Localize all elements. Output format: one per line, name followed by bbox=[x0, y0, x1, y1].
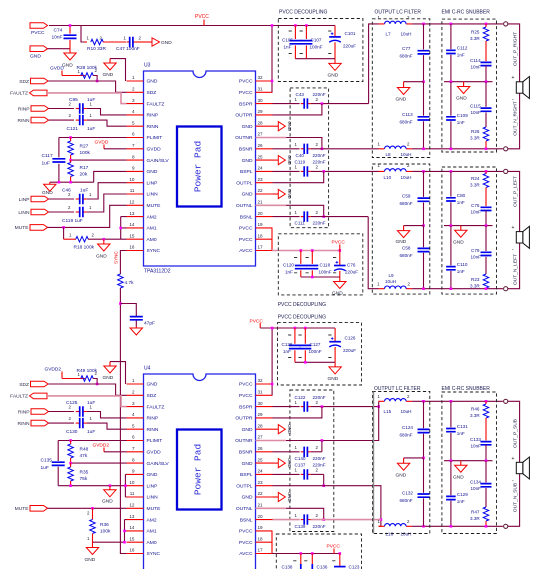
port MUTE bbox=[30, 225, 48, 231]
C101 plates bbox=[329, 36, 341, 38]
svg-text:GND: GND bbox=[242, 495, 253, 501]
terminal OUT_N_RIGHT bbox=[504, 147, 508, 151]
svg-text:6: 6 bbox=[132, 435, 135, 440]
svg-text:47pF: 47pF bbox=[144, 321, 155, 327]
svg-text:Power Pad: Power Pad bbox=[193, 141, 204, 192]
junction OUTNR/C140 bbox=[321, 439, 324, 442]
junction C110 bottom bbox=[450, 287, 453, 290]
svg-text:OUT_N_LEFT: OUT_N_LEFT bbox=[513, 254, 519, 285]
svg-text:C140: C140 bbox=[295, 456, 306, 461]
U3 pin 18 PVCC bbox=[256, 238, 273, 240]
svg-text:OUTNR: OUTNR bbox=[235, 135, 253, 141]
svg-text:RINP: RINP bbox=[147, 416, 159, 422]
capacitor C112 1nF bbox=[450, 24, 452, 82]
junction R35 bottom bbox=[69, 484, 72, 487]
junction MUTE/R18 bbox=[62, 226, 65, 229]
svg-text:10nF: 10nF bbox=[471, 210, 482, 215]
capacitor C79 10nF bbox=[485, 226, 487, 274]
wire PVCC to U4 pins 32/31 bbox=[271, 328, 273, 395]
svg-text:GND: GND bbox=[453, 240, 464, 246]
svg-text:BSNL: BSNL bbox=[240, 214, 253, 220]
svg-text:1uF: 1uF bbox=[87, 429, 95, 435]
junction U4 pin 32 bbox=[271, 383, 274, 386]
capacitor C120 1nF bbox=[300, 251, 302, 278]
junction MUTE/R36 bbox=[91, 507, 94, 510]
svg-text:C109: C109 bbox=[457, 113, 468, 118]
U4 pin 2 SDZ bbox=[127, 394, 144, 396]
svg-text:R47: R47 bbox=[471, 510, 480, 515]
svg-text:BSNR: BSNR bbox=[239, 147, 253, 153]
wire FAULTZ to pin 3 bbox=[47, 93, 127, 104]
svg-text:GVDD2: GVDD2 bbox=[93, 443, 110, 449]
box bootstrap caps U3 bbox=[290, 88, 329, 228]
cap pin ticks box3 bbox=[288, 335, 331, 358]
wire R25 to C114 bbox=[485, 41, 487, 61]
U3 pin 26 BSNR bbox=[256, 148, 273, 150]
svg-text:1uF: 1uF bbox=[87, 400, 95, 406]
svg-text:OUTNR: OUTNR bbox=[235, 438, 253, 444]
U4 pin 1 GND bbox=[127, 383, 144, 385]
junction C80/C110 bbox=[450, 224, 453, 227]
capacitor C140 220nF bbox=[301, 451, 305, 453]
wire OUTNL to C139 row bbox=[286, 508, 324, 519]
svg-text:2: 2 bbox=[132, 390, 135, 395]
svg-text:C135: C135 bbox=[41, 458, 53, 464]
svg-text:RINN: RINN bbox=[147, 427, 159, 433]
wire C121 to pin 5 bbox=[87, 120, 127, 126]
svg-text:GND: GND bbox=[103, 375, 114, 381]
junction C127 bbox=[304, 327, 307, 330]
wire U4 pins 19-17 tie bbox=[271, 531, 273, 554]
svg-text:18: 18 bbox=[258, 233, 264, 238]
port MUTE (U4) bbox=[30, 506, 48, 512]
svg-text:C121: C121 bbox=[67, 126, 79, 132]
svg-text:1: 1 bbox=[132, 75, 135, 80]
junction C112/C109 bbox=[450, 80, 453, 83]
port RINP bbox=[31, 106, 49, 112]
U3 pin 8 GAIN/SLV bbox=[127, 159, 144, 161]
port RINN bbox=[31, 117, 49, 123]
svg-text:28: 28 bbox=[258, 423, 264, 428]
svg-text:C138: C138 bbox=[282, 565, 293, 569]
svg-text:L9: L9 bbox=[389, 273, 395, 278]
U4 pin 31 PVCC bbox=[256, 394, 273, 396]
svg-text:C133: C133 bbox=[470, 437, 481, 442]
junction C107 bbox=[305, 24, 308, 27]
U3 pin 2 SDZ bbox=[127, 91, 144, 93]
svg-text:C95: C95 bbox=[69, 97, 78, 103]
svg-text:GND: GND bbox=[242, 427, 253, 433]
wire RINN to C130 bbox=[49, 422, 75, 424]
wire pin GND stub bbox=[273, 462, 279, 464]
capacitor C76 220uF bbox=[339, 251, 341, 278]
port RINP (U4) bbox=[31, 409, 49, 415]
junction C80 top bbox=[450, 170, 453, 173]
U4 pin 6 PLIMIT bbox=[127, 440, 144, 442]
svg-text:LINP: LINP bbox=[19, 197, 30, 203]
U4 pin 4 RINP bbox=[127, 417, 144, 419]
junction C75/C79 bbox=[485, 224, 488, 227]
capacitor C125 1uF bbox=[76, 411, 80, 413]
svg-text:BSNL: BSNL bbox=[240, 517, 253, 523]
junction C118 bottom bbox=[311, 276, 314, 279]
svg-text:23: 23 bbox=[258, 480, 264, 485]
power label PVCC bbox=[203, 20, 205, 26]
inductor L10 10uH bbox=[379, 170, 413, 172]
svg-text:C76: C76 bbox=[347, 263, 356, 268]
svg-text:GND: GND bbox=[242, 461, 253, 467]
inductor L16 10uH bbox=[379, 525, 413, 527]
port RINN (U4) bbox=[31, 420, 49, 426]
wire to LC gnd 2 bbox=[404, 225, 424, 227]
U3 pin 3 FAULTZ bbox=[127, 103, 144, 105]
junction R24 top bbox=[485, 170, 488, 173]
svg-text:27: 27 bbox=[258, 435, 264, 440]
wire PVCC rail (U4) bbox=[260, 327, 335, 329]
svg-text:680nF: 680nF bbox=[400, 498, 413, 503]
svg-text:PVCC: PVCC bbox=[239, 382, 253, 388]
U3 pin 28 GND bbox=[256, 125, 273, 127]
svg-text:GND: GND bbox=[453, 475, 464, 481]
svg-text:PVCC: PVCC bbox=[239, 237, 253, 243]
wire RINP to C125 bbox=[49, 411, 75, 413]
svg-text:LINN: LINN bbox=[147, 495, 159, 501]
U3 pin 1 GND bbox=[127, 80, 144, 82]
junction R46 top bbox=[485, 400, 488, 403]
svg-text:680nF: 680nF bbox=[400, 253, 413, 258]
wire C95 to pin 4 bbox=[87, 109, 127, 115]
wire C139 row to L16 feed (pink) bbox=[311, 519, 381, 521]
svg-text:AM0: AM0 bbox=[147, 237, 157, 243]
svg-text:GVDD: GVDD bbox=[147, 450, 162, 456]
svg-text:PVCC DECOUPLING: PVCC DECOUPLING bbox=[279, 10, 327, 16]
svg-text:30: 30 bbox=[258, 401, 264, 406]
junction pins tie bbox=[124, 484, 127, 487]
resistor R36 100k bbox=[90, 520, 96, 534]
svg-text:GVDD2: GVDD2 bbox=[45, 367, 62, 373]
svg-text:PLIMIT: PLIMIT bbox=[147, 438, 163, 444]
wire divider bottom rail bbox=[50, 181, 94, 183]
U4 pin 24 BSPL bbox=[256, 473, 273, 475]
svg-text:GND: GND bbox=[242, 124, 253, 130]
svg-text:1nF: 1nF bbox=[457, 499, 465, 504]
svg-text:GND: GND bbox=[147, 169, 158, 175]
svg-text:C117: C117 bbox=[42, 153, 53, 159]
svg-text:+: + bbox=[512, 456, 515, 462]
junction OUTNL/C139 bbox=[322, 518, 325, 521]
svg-text:R23: R23 bbox=[471, 277, 480, 282]
svg-text:3.3R: 3.3R bbox=[470, 136, 480, 141]
box edge solid (LC filter 3 left) bbox=[373, 392, 375, 534]
wire PVCC rail bbox=[49, 25, 335, 27]
svg-text:C77: C77 bbox=[402, 46, 411, 51]
U3 pin 14 AM1 bbox=[127, 227, 144, 229]
capacitor C129 1nF bbox=[450, 461, 452, 527]
capacitor 47pF bbox=[120, 304, 136, 327]
svg-text:4.7k: 4.7k bbox=[125, 280, 135, 286]
svg-text:1nF: 1nF bbox=[457, 53, 465, 58]
svg-text:GND: GND bbox=[287, 189, 292, 199]
svg-text:C129: C129 bbox=[457, 492, 468, 497]
svg-text:15: 15 bbox=[129, 233, 135, 238]
svg-text:26: 26 bbox=[258, 446, 264, 451]
ground at U4 pin 1 bbox=[110, 362, 126, 384]
svg-text:6: 6 bbox=[132, 132, 135, 137]
junction PVCC rail drop bbox=[271, 24, 274, 27]
svg-text:100nF: 100nF bbox=[310, 45, 323, 50]
junction divider mid bbox=[69, 159, 72, 162]
wire GVDD to pin 7 bbox=[104, 148, 127, 150]
wire L15 node to OUTNR row bbox=[322, 407, 379, 441]
U4 pin 8 GAIN/SLV bbox=[127, 462, 144, 464]
svg-text:C105: C105 bbox=[282, 38, 293, 43]
junction R17 bottom bbox=[69, 181, 72, 184]
capacitor C80 1nF bbox=[450, 171, 452, 225]
capacitor C118 100nF bbox=[311, 251, 313, 278]
junction C105 bbox=[294, 24, 297, 27]
box EMI snubber 3 bbox=[442, 392, 497, 534]
C76 plates bbox=[334, 265, 346, 267]
svg-text:24: 24 bbox=[258, 166, 264, 171]
svg-text:SYNC: SYNC bbox=[147, 248, 161, 254]
U3 pin 4 RINP bbox=[127, 114, 144, 116]
svg-text:R27: R27 bbox=[80, 143, 89, 149]
svg-text:12: 12 bbox=[129, 200, 135, 205]
svg-text:C112: C112 bbox=[457, 46, 468, 51]
wire AM2/AM1/AM0 rail bbox=[121, 217, 127, 240]
wire U4 pin 24 to C137 bbox=[273, 473, 300, 475]
U4 pin 3 FAULTZ bbox=[127, 406, 144, 408]
svg-text:MUTE: MUTE bbox=[15, 506, 30, 512]
cap pin ticks box2 bbox=[294, 258, 336, 273]
svg-text:1uF: 1uF bbox=[80, 188, 88, 194]
junction C132 bottom bbox=[422, 525, 425, 528]
junction C124 tap bbox=[422, 400, 425, 403]
svg-text:10: 10 bbox=[129, 177, 135, 182]
svg-text:SDZ: SDZ bbox=[147, 393, 157, 399]
svg-text:47k: 47k bbox=[80, 453, 88, 459]
svg-text:R46: R46 bbox=[471, 407, 480, 412]
C126 plates bbox=[329, 341, 341, 343]
junction C136 top bbox=[311, 552, 314, 555]
U3 pin 30 BSPR bbox=[256, 103, 273, 105]
ground right arrow bbox=[278, 122, 285, 131]
svg-text:OUTPUT LC FILTER: OUTPUT LC FILTER bbox=[375, 10, 422, 16]
svg-text:C43: C43 bbox=[296, 92, 305, 97]
svg-text:PLIMIT: PLIMIT bbox=[147, 135, 163, 141]
junction C114/C115 bbox=[485, 80, 488, 83]
svg-text:10uH: 10uH bbox=[401, 175, 412, 180]
junction C127 bottom bbox=[304, 361, 307, 364]
capacitor C47 100nF bbox=[127, 41, 130, 43]
junction C112 top bbox=[450, 23, 453, 26]
ground snubber 3 bbox=[460, 461, 462, 466]
capacitor C139 220nF bbox=[301, 519, 305, 521]
svg-text:SDZ: SDZ bbox=[147, 90, 157, 96]
wire terminal to speaker + (sub) bbox=[508, 401, 520, 462]
wire OUTNR pin 27 (pink) bbox=[256, 137, 287, 139]
svg-text:C132: C132 bbox=[402, 491, 413, 496]
ground right arrow bbox=[278, 189, 285, 198]
U4 pin 19 PVCC bbox=[256, 530, 273, 532]
U4 pin 15 AM0 bbox=[127, 541, 144, 543]
terminal OUT_N_LEFT bbox=[504, 287, 508, 291]
svg-text:PVCC: PVCC bbox=[31, 30, 45, 36]
port LINP bbox=[31, 196, 49, 202]
wire OUTNL U4 pin 21 (pink) bbox=[256, 507, 287, 509]
svg-text:7: 7 bbox=[132, 143, 135, 148]
U3 pin 13 AM2 bbox=[127, 216, 144, 218]
ground at U3 pin 1 bbox=[110, 59, 126, 81]
svg-text:GND: GND bbox=[456, 96, 467, 102]
U3 pin 16 SYNC bbox=[127, 250, 144, 252]
wire SDZ to U4 pin 2 bbox=[48, 384, 127, 395]
svg-text:18: 18 bbox=[258, 536, 264, 541]
svg-text:3: 3 bbox=[132, 98, 135, 103]
svg-text:680nF: 680nF bbox=[400, 54, 413, 59]
svg-text:1nF: 1nF bbox=[283, 349, 291, 354]
wire L9 to OUT_N_LEFT bbox=[412, 288, 503, 290]
U4 pin 22 GND bbox=[256, 496, 273, 498]
svg-text:17: 17 bbox=[258, 548, 264, 553]
wire U4 pin 23 OUTPL bbox=[273, 485, 324, 487]
wire L16 to OUT_N_SUB bbox=[412, 525, 503, 527]
resistor R18 100k bbox=[76, 236, 89, 242]
svg-text:LINN: LINN bbox=[147, 192, 159, 198]
resistor R27 100k bbox=[68, 141, 74, 155]
junction rail drop (U4) bbox=[271, 327, 274, 330]
wire U4 pin 26 to C140 bbox=[273, 451, 300, 453]
resistor R26 3.3R bbox=[483, 127, 489, 141]
svg-text:GND: GND bbox=[287, 121, 292, 131]
svg-text:3.3R: 3.3R bbox=[470, 284, 480, 289]
svg-text:32: 32 bbox=[258, 378, 264, 383]
svg-text:75k: 75k bbox=[80, 476, 88, 482]
svg-text:1nF: 1nF bbox=[457, 200, 465, 205]
capacitor C43 220nF bbox=[301, 103, 305, 105]
svg-text:13: 13 bbox=[129, 514, 135, 519]
svg-text:GND: GND bbox=[287, 492, 292, 502]
svg-text:R24: R24 bbox=[471, 176, 480, 181]
resistor R23 3.3R bbox=[483, 274, 489, 288]
svg-text:1uF: 1uF bbox=[41, 465, 49, 471]
svg-text:9: 9 bbox=[132, 469, 135, 474]
svg-text:R49 100k: R49 100k bbox=[77, 368, 98, 374]
svg-text:10nF: 10nF bbox=[471, 110, 482, 115]
wire pins 19-17 tie bbox=[271, 228, 273, 251]
svg-text:15: 15 bbox=[129, 536, 135, 541]
svg-text:220nF: 220nF bbox=[313, 160, 326, 165]
wire pin 20 to C111 bbox=[273, 216, 300, 218]
svg-text:BSPL: BSPL bbox=[240, 472, 253, 478]
svg-text:32: 32 bbox=[258, 75, 264, 80]
svg-text:11: 11 bbox=[130, 491, 135, 496]
junction C58 bottom bbox=[422, 287, 425, 290]
svg-text:PVCC: PVCC bbox=[239, 393, 253, 399]
U3 pin 11 LINN bbox=[127, 193, 144, 195]
wire snubber mid rail 1 bbox=[444, 81, 493, 83]
port FAULTZ bbox=[30, 90, 48, 96]
svg-text:680nF: 680nF bbox=[400, 201, 413, 206]
U3 pin 6 PLIMIT bbox=[127, 137, 144, 139]
svg-text:8: 8 bbox=[132, 457, 135, 462]
svg-text:RINP: RINP bbox=[18, 409, 30, 415]
ground below R18 bbox=[103, 239, 105, 244]
capacitor C122 220nF bbox=[301, 406, 305, 408]
svg-text:C128: C128 bbox=[282, 342, 293, 347]
resistor R48 47k bbox=[68, 444, 74, 458]
wire U4 pin 30 to C122 bbox=[273, 406, 300, 408]
svg-text:GND: GND bbox=[147, 472, 158, 478]
svg-text:C126: C126 bbox=[345, 336, 356, 341]
svg-text:GND: GND bbox=[85, 557, 96, 563]
wire SDZ to pin 2 bbox=[48, 81, 127, 92]
wire OUTPR to U4 pin 29 bbox=[273, 407, 322, 418]
port FAULTZ (U4) bbox=[30, 393, 48, 399]
ground U4 decoupling bbox=[334, 362, 336, 367]
svg-text:R36: R36 bbox=[100, 522, 109, 528]
junction C133/C134 bbox=[485, 459, 488, 462]
svg-text:29: 29 bbox=[258, 412, 264, 417]
svg-text:PVCC: PVCC bbox=[239, 79, 253, 85]
terminal OUT_P_SUB bbox=[504, 399, 508, 403]
U4 pin 30 BSPR bbox=[256, 406, 273, 408]
svg-text:BSNR: BSNR bbox=[239, 450, 253, 456]
port SDZ bbox=[31, 78, 49, 84]
capacitor C107 100nF bbox=[305, 26, 307, 59]
wire snubber mid rail 3 bbox=[444, 460, 493, 462]
svg-text:GND: GND bbox=[102, 499, 113, 505]
junction C120 top bbox=[300, 249, 303, 252]
junction R49/SDZ bbox=[96, 383, 99, 386]
wire snubber mid rail 2 bbox=[444, 225, 493, 227]
svg-text:SDZ: SDZ bbox=[19, 79, 29, 85]
svg-text:14: 14 bbox=[129, 525, 135, 530]
wire GVDD2 to R49 bbox=[62, 378, 85, 380]
ground LC filter 2 bbox=[403, 226, 405, 231]
ground below C74 bbox=[69, 49, 71, 53]
U4 pin 13 AM2 bbox=[127, 519, 144, 521]
U3 pin 12 MUTE bbox=[127, 204, 144, 206]
capacitor C58 680nF bbox=[423, 226, 425, 289]
svg-text:C122: C122 bbox=[295, 395, 306, 400]
svg-text:28: 28 bbox=[258, 120, 264, 125]
svg-text:17: 17 bbox=[258, 245, 264, 250]
junction C124/C132 bbox=[422, 457, 425, 460]
ground below divider bbox=[49, 182, 51, 184]
capacitor C113 680nF bbox=[423, 82, 425, 149]
wire AM rail (U4) bbox=[125, 520, 127, 543]
wire C130 to U4 pin 5 bbox=[87, 423, 127, 429]
svg-text:27: 27 bbox=[258, 132, 264, 137]
svg-text:OUT_P_SUB: OUT_P_SUB bbox=[513, 419, 519, 448]
U4 thermal Power Pad bbox=[177, 430, 222, 510]
svg-text:3.3R: 3.3R bbox=[470, 36, 480, 41]
U3 pin 9 GND bbox=[127, 170, 144, 172]
wire decoupling 2 bottom rail bbox=[301, 276, 340, 278]
junction pin 32 bbox=[271, 80, 274, 83]
junction OUTNL/C111 bbox=[322, 215, 325, 218]
capacitor C130 1uF bbox=[76, 422, 80, 424]
svg-text:220nF: 220nF bbox=[313, 221, 326, 226]
svg-text:10nF: 10nF bbox=[471, 65, 482, 70]
junction C59/C58 bbox=[422, 224, 425, 227]
wire PLIMIT rail (U4) bbox=[58, 440, 126, 442]
wire GVDD to R28 bbox=[62, 75, 85, 77]
wire OUTNR U4 pin 27 (pink) bbox=[256, 440, 287, 442]
inductor L9 10uH bbox=[379, 288, 413, 290]
svg-text:U4: U4 bbox=[144, 366, 151, 372]
